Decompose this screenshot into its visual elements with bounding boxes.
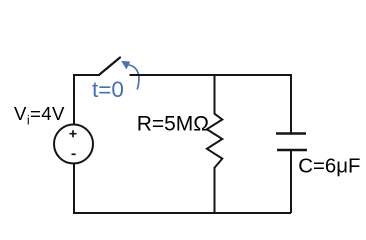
wire: top segment from switch to top-right corner (130, 74, 292, 76)
- polarity mark (72, 153, 76, 155)
voltage source Vi (circle) (54, 125, 93, 164)
switch SW1 blade (open, t=0) (100, 58, 121, 75)
wire: left vertical below source (73, 164, 75, 214)
wire: right vertical above capacitor (290, 74, 292, 133)
resistor R (zigzag with leads) (207, 74, 222, 213)
+ polarity mark (70, 130, 77, 137)
svg-text:Vi=4V: Vi=4V (14, 103, 65, 128)
wire: bottom segment (73, 212, 291, 214)
wire: left vertical above source (73, 74, 75, 125)
wire: top-left segment from left corner to switch pivot (74, 74, 100, 76)
wire: right vertical below capacitor (290, 150, 292, 213)
capacitor C plates (276, 134, 307, 151)
svg-text:t=0: t=0 (92, 77, 124, 102)
svg-text:R=5MΩ: R=5MΩ (137, 113, 209, 136)
switch closing arrow (blue arc) (121, 61, 139, 90)
svg-text:C=6μF: C=6μF (298, 155, 360, 177)
